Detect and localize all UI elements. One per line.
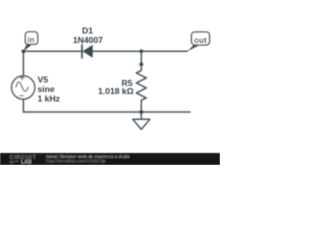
svg-text:in: in (27, 35, 34, 44)
svg-text:LAB: LAB (21, 159, 32, 165)
svg-text:1.018 kΩ: 1.018 kΩ (98, 86, 134, 96)
svg-text:http://circuitlab.com/c/3657qk: http://circuitlab.com/c/3657qk (46, 159, 106, 164)
svg-text:1 kHz: 1 kHz (38, 94, 60, 104)
svg-text:out: out (194, 36, 207, 45)
svg-text:sine: sine (38, 84, 55, 94)
svg-text:1N4007: 1N4007 (73, 35, 103, 45)
svg-text:D1: D1 (82, 26, 93, 36)
